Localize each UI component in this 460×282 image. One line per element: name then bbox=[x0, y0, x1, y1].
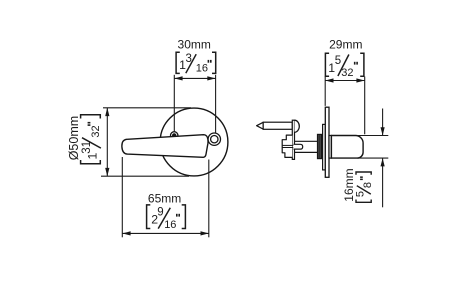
spindle screw shaft bbox=[257, 122, 293, 129]
dimension 16mm arrow down bbox=[381, 127, 385, 135]
dimension 65mm dimension line bbox=[122, 232, 209, 234]
dimension 65mm extension lines bbox=[121, 157, 123, 237]
dimension 29mm arrow left bbox=[325, 78, 333, 82]
pivot screw bbox=[171, 132, 178, 139]
cylinder collar bbox=[329, 136, 331, 159]
svg-text:9: 9 bbox=[157, 207, 163, 219]
svg-text:5: 5 bbox=[335, 55, 341, 67]
latch cylinder body bbox=[331, 136, 363, 159]
label 1 31/32 inch (rotated) bbox=[81, 115, 103, 164]
label 1 3/16 inch bbox=[176, 52, 216, 73]
svg-text:29mm: 29mm bbox=[329, 38, 362, 52]
dimension 16mm extension lines bbox=[357, 135, 388, 137]
svg-text:32: 32 bbox=[341, 67, 353, 79]
spindle bar bbox=[295, 141, 320, 152]
dimension 30mm arrow left bbox=[174, 76, 182, 80]
svg-text:Ø50mm: Ø50mm bbox=[67, 116, 81, 160]
svg-text:16: 16 bbox=[196, 63, 208, 75]
dimension 50mm top extension line bbox=[103, 107, 191, 109]
dimension 29mm extension lines bbox=[324, 77, 326, 106]
washer bar bbox=[292, 120, 294, 159]
label 1 5/32 inch bbox=[325, 53, 364, 76]
dimension 29mm dimension line bbox=[325, 80, 365, 82]
clip slot lines bbox=[282, 144, 293, 146]
cotter pin bbox=[294, 144, 303, 149]
dimension 65mm arrow left bbox=[122, 231, 130, 235]
label 2 9/16 inch bbox=[147, 205, 186, 229]
dimension 16mm dimension line bbox=[382, 109, 384, 136]
hub large ring bbox=[323, 124, 326, 169]
fixing screw bbox=[208, 133, 220, 145]
svg-text:30mm: 30mm bbox=[178, 37, 211, 51]
rosette plate (side view) bbox=[325, 107, 329, 177]
hub small rings bbox=[318, 134, 323, 158]
svg-text:32: 32 bbox=[90, 125, 102, 137]
svg-text:65mm: 65mm bbox=[148, 191, 181, 205]
dimension 50mm bottom extension line bbox=[101, 175, 189, 177]
dimension 50mm arrow down bbox=[105, 168, 109, 176]
dimension 50mm dimension line bbox=[106, 108, 108, 176]
svg-text:8: 8 bbox=[362, 182, 374, 188]
svg-text:5: 5 bbox=[355, 191, 367, 197]
spindle screw head bbox=[295, 120, 300, 132]
dimension 30mm arrow right bbox=[207, 76, 215, 80]
dimension 30mm dimension line bbox=[174, 77, 215, 79]
label 5/8 inch (rotated) bbox=[355, 172, 374, 202]
dimension 16mm arrow up bbox=[381, 158, 385, 166]
dimension 30mm extension lines bbox=[173, 75, 175, 132]
dimension 29mm arrow right bbox=[356, 78, 364, 82]
spring clip bbox=[282, 135, 292, 157]
rosette circle (front view) bbox=[160, 108, 228, 176]
lever handle bbox=[122, 135, 208, 158]
dimension 65mm arrow right bbox=[201, 231, 209, 235]
svg-text:16: 16 bbox=[164, 219, 176, 231]
dimension 50mm arrow up bbox=[105, 108, 109, 116]
